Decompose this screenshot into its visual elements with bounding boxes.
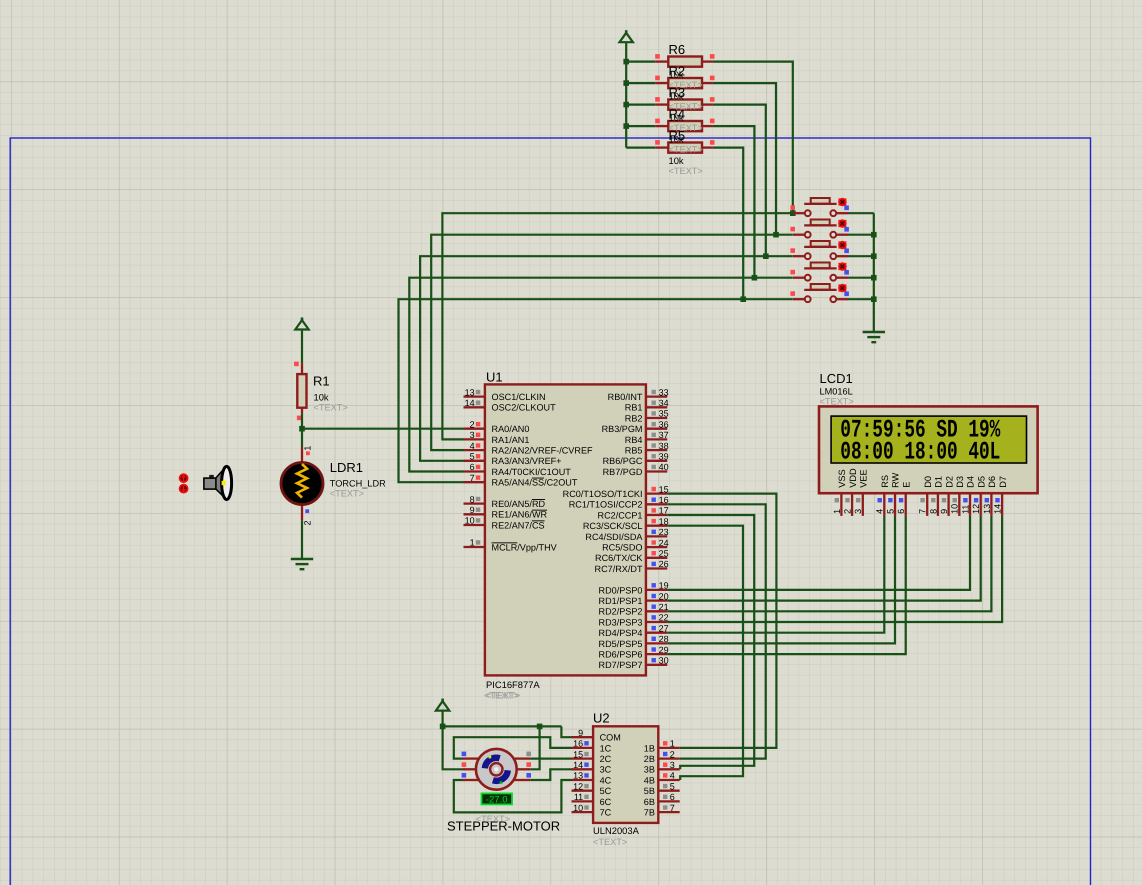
U1 pin 33 (RB0/INT): [646, 390, 667, 397]
wire U1 RD4 to LCD RS: [667, 516, 884, 633]
svg-text:RA4/T0CKI/C1OUT: RA4/T0CKI/C1OUT: [492, 467, 572, 477]
torch light source icon: [204, 466, 232, 499]
wire R6 right lead to button 1: [713, 62, 793, 214]
svg-text:D1: D1: [934, 476, 944, 488]
svg-text:11: 11: [960, 505, 970, 514]
wire U2 4C to motor coil D: [454, 780, 572, 812]
node ground rail node (junction): [871, 275, 877, 281]
svg-text:D3: D3: [955, 476, 965, 488]
svg-text:8: 8: [470, 494, 475, 504]
handle LDR1 pin2: [305, 509, 309, 513]
U1 pin 35 (RB2): [646, 411, 667, 418]
svg-text:VDD: VDD: [848, 468, 858, 488]
svg-text:RD3/PSP3: RD3/PSP3: [599, 617, 643, 627]
svg-text:RC1/T1OSI/CCP2: RC1/T1OSI/CCP2: [569, 500, 643, 510]
node LDR divider node (junction): [299, 426, 305, 432]
power symbol VCC (stepper): [436, 699, 449, 711]
wire U1 RC1 to U2 2B: [667, 504, 765, 758]
handle R6 pin1: [655, 54, 660, 59]
wire LDR divider node to U1 RA0: [302, 428, 464, 430]
svg-text:5: 5: [670, 781, 675, 791]
svg-text:<TEXT>: <TEXT>: [314, 403, 348, 413]
wire R6 left lead: [626, 60, 655, 62]
svg-text:D4: D4: [966, 476, 976, 488]
svg-text:RD7/PSP7: RD7/PSP7: [599, 660, 643, 670]
resistor R1 10k: [297, 363, 306, 413]
wire U1 RD2 to LCD D6: [667, 516, 991, 611]
LCD1 pin 6 (E): [899, 493, 906, 516]
node ground rail node (junction): [871, 253, 877, 259]
LDR LDR1 TORCH_LDR: [281, 447, 323, 520]
U1 pin 17 (RC2/CCP1): [646, 508, 667, 515]
wire R3 right lead to button 3: [713, 105, 766, 257]
svg-text:10: 10: [950, 504, 960, 514]
svg-text:RE1/AN6/WR: RE1/AN6/WR: [492, 510, 548, 520]
svg-text:16: 16: [659, 495, 669, 505]
LCD1 pin 3 (VEE): [856, 493, 863, 516]
wire U1 RD1 to LCD D5: [667, 516, 980, 601]
svg-text:RA2/AN2/VREF-/CVREF: RA2/AN2/VREF-/CVREF: [492, 446, 594, 456]
LCD1 pin 12 (D5): [974, 493, 981, 516]
svg-text:14: 14: [573, 760, 583, 770]
U1 pin 28 (RD5/PSP5): [646, 637, 667, 644]
ground LDR ground: [291, 559, 313, 569]
svg-text:22: 22: [659, 613, 669, 623]
wire R2 right lead to button 2: [713, 83, 776, 235]
svg-text:5: 5: [470, 452, 475, 462]
svg-text:19: 19: [659, 581, 669, 591]
svg-text:RC2/CCP1: RC2/CCP1: [598, 510, 643, 520]
LCD1 pin 7 (D0): [920, 493, 927, 516]
U1 pin 1 (MCLR/Vpp/THV): [464, 540, 485, 547]
svg-text:13: 13: [573, 771, 583, 781]
svg-text:RC7/RX/DT: RC7/RX/DT: [595, 564, 643, 574]
svg-text:<TEXT>: <TEXT>: [484, 690, 518, 700]
wire button ground rail: [873, 213, 875, 332]
node button 4 left node (junction): [752, 275, 758, 281]
node power rail mid node (junction): [537, 724, 543, 730]
U1 pin 21 (RD2/PSP2): [646, 605, 667, 612]
handle button 1 blue: [844, 206, 849, 211]
node button 5 left node (junction): [740, 296, 746, 302]
svg-text:RE0/AN5/RD: RE0/AN5/RD: [492, 499, 546, 509]
svg-text:D2: D2: [944, 476, 954, 488]
node ground rail node (junction): [871, 232, 877, 238]
svg-text:4B: 4B: [644, 775, 655, 785]
svg-text:RC4/SDI/SDA: RC4/SDI/SDA: [585, 532, 643, 542]
U2 pin 5 (5B): [658, 784, 679, 791]
wire button 2 right to ground rail: [848, 234, 874, 236]
svg-text:OSC1/CLKIN: OSC1/CLKIN: [492, 392, 546, 402]
svg-text:RD0/PSP0: RD0/PSP0: [599, 585, 643, 595]
svg-text:<TEXT>: <TEXT>: [820, 397, 854, 407]
svg-text:6B: 6B: [644, 797, 655, 807]
U2 pin 14 (3C): [572, 763, 594, 770]
svg-text:4: 4: [470, 441, 475, 451]
button 3 actuator: [838, 241, 846, 248]
svg-text:4C: 4C: [600, 775, 612, 785]
svg-text:4: 4: [875, 509, 885, 514]
handle motor pin B: [526, 752, 531, 757]
svg-text:13: 13: [982, 504, 992, 514]
svg-text:VEE: VEE: [859, 469, 869, 487]
svg-text:10k: 10k: [314, 392, 329, 403]
handle LDR1 pin1: [306, 451, 310, 455]
U1 pin 37 (RB4): [646, 433, 667, 440]
node ground rail node (junction): [871, 296, 877, 302]
resistor R3 10k: [655, 100, 713, 110]
U1 pin 4 (RA2/AN2/VREF-/CVREF): [464, 443, 485, 450]
sheet border: [10, 138, 1090, 885]
LCD1 pin 10 (D3): [953, 493, 960, 516]
U1 pin 22 (RD3/PSP3): [646, 615, 667, 622]
LCD display area: [831, 416, 1026, 463]
handle button 5 blue: [844, 292, 849, 297]
svg-text:9: 9: [470, 505, 475, 515]
svg-text:24: 24: [659, 538, 669, 548]
resistor R2 10k: [655, 78, 713, 88]
handle R1 pin1: [294, 362, 299, 367]
wire power to motor left common: [443, 726, 463, 769]
svg-text:STEPPER-MOTOR: STEPPER-MOTOR: [447, 819, 560, 834]
svg-text:30: 30: [659, 656, 669, 666]
handle R2 pin1: [655, 76, 660, 81]
push button 1: [793, 198, 848, 216]
wire U1 RD0 to LCD D4: [667, 516, 970, 590]
svg-text:-27.0: -27.0: [486, 795, 508, 806]
svg-text:1C: 1C: [600, 743, 612, 753]
handle button 5: [790, 291, 795, 296]
svg-text:6: 6: [670, 792, 675, 802]
svg-text:U2: U2: [593, 711, 610, 726]
svg-text:7B: 7B: [644, 808, 655, 818]
wire button 1 right to ground rail: [848, 212, 874, 214]
handle button 2: [790, 227, 795, 232]
svg-text:18: 18: [659, 516, 669, 526]
wire button 4 to PIC RA4: [409, 278, 793, 472]
push button 4: [793, 263, 848, 281]
svg-text:RD1/PSP1: RD1/PSP1: [599, 596, 643, 606]
stepper speed readout -27.0: [482, 793, 513, 805]
U1 pin 15 (RC0/T1OSO/T1CKI): [646, 487, 667, 494]
U1 pin 30 (RD7/PSP7): [646, 658, 667, 665]
svg-text:RB6/PGC: RB6/PGC: [603, 456, 643, 466]
svg-text:R6: R6: [669, 42, 686, 57]
U2 pin 13 (4C): [572, 773, 594, 780]
wire U2 1C to motor coil A: [454, 737, 572, 758]
svg-text:RW: RW: [891, 472, 901, 487]
push button 3: [793, 241, 848, 259]
wire U1 RC0 to U2 1B: [667, 494, 776, 748]
svg-text:3: 3: [470, 430, 475, 440]
button 2 actuator: [838, 220, 846, 227]
U1 pin 5 (RA3/AN3/VREF+): [464, 454, 485, 461]
svg-text:RC0/T1OSO/T1CKI: RC0/T1OSO/T1CKI: [563, 489, 643, 499]
svg-text:5C: 5C: [600, 786, 612, 796]
node button 3 left node (junction): [763, 253, 769, 259]
handle button 3 blue: [844, 249, 849, 254]
wire U1 RD5 to LCD RW: [667, 516, 895, 644]
svg-text:36: 36: [659, 419, 669, 429]
handle button 2 blue: [844, 227, 849, 232]
button 4 actuator: [838, 263, 846, 270]
svg-text:10: 10: [465, 516, 475, 526]
wire U1 RD6 to LCD E: [667, 516, 905, 654]
U1 pin 13 (OSC1/CLKIN): [464, 390, 485, 397]
resistor R4 10k: [655, 121, 713, 131]
U1 pin 25 (RC6/TX/CK): [646, 551, 667, 558]
svg-text:MCLR/Vpp/THV: MCLR/Vpp/THV: [492, 542, 558, 552]
svg-text:RC6/TX/CK: RC6/TX/CK: [595, 553, 643, 563]
wire button 3 right to ground rail: [848, 255, 874, 257]
handle R5 pin2: [710, 140, 715, 145]
node power rail / R3 (junction): [623, 102, 629, 108]
svg-text:2: 2: [303, 520, 313, 525]
svg-text:RB2: RB2: [625, 413, 643, 423]
wire button 5 to PIC RA5: [399, 299, 793, 482]
U1 pin 29 (RD6/PSP6): [646, 647, 667, 654]
svg-text:OSC2/CLKOUT: OSC2/CLKOUT: [492, 403, 557, 413]
U1 pin 34 (RB1): [646, 401, 667, 408]
svg-text:3: 3: [670, 760, 675, 770]
node button 1 left node (junction): [790, 210, 796, 216]
svg-text:<TEXT>: <TEXT>: [330, 489, 364, 499]
U1 pin 8 (RE0/AN5/RD): [464, 497, 485, 504]
U2 pin 12 (5C): [572, 784, 594, 791]
button 1 actuator: [838, 198, 846, 205]
handle motor pin D: [462, 773, 467, 778]
U1 pin 38 (RB5): [646, 443, 667, 450]
wire power to motor right common: [530, 726, 540, 769]
U1 pin 2 (RA0/AN0): [464, 422, 485, 429]
svg-text:29: 29: [659, 645, 669, 655]
svg-text:2C: 2C: [600, 754, 612, 764]
wire VCC stem: [442, 710, 444, 727]
wire button 3 to PIC RA3: [420, 256, 793, 461]
svg-text:7: 7: [670, 803, 675, 813]
svg-text:20: 20: [659, 591, 669, 601]
wire R5 right lead to button 5: [713, 148, 743, 300]
LCD LCD1 LM016L body: [819, 406, 1038, 493]
svg-text:COM: COM: [600, 733, 621, 743]
wire stepper power rail horizontal: [443, 725, 562, 727]
power symbol VCC (resistor network): [620, 30, 633, 42]
svg-text:RB5: RB5: [625, 446, 643, 456]
svg-text:16: 16: [573, 739, 583, 749]
svg-text:6: 6: [896, 509, 906, 514]
svg-text:7C: 7C: [600, 808, 612, 818]
wire U2 2C to motor coil B: [530, 757, 571, 759]
U1 pin 18 (RC3/SCK/SCL): [646, 519, 667, 526]
U2 pin 4 (4B): [658, 773, 679, 780]
svg-text:12: 12: [971, 504, 981, 514]
wire LDR1 to ground: [301, 520, 303, 558]
handle motor pin C: [526, 773, 531, 778]
svg-text:RD6/PSP6: RD6/PSP6: [599, 650, 643, 660]
U1 pin 19 (RD0/PSP0): [646, 583, 667, 590]
U1 pin 36 (RB3/PGM): [646, 422, 667, 429]
svg-text:37: 37: [659, 430, 669, 440]
LCD1 pin 11 (D4): [963, 493, 970, 516]
U2 pin 7 (7B): [658, 805, 679, 812]
svg-text:RS: RS: [880, 475, 890, 488]
U1 pin 7 (RA5/AN4/SS/C2OUT): [464, 475, 485, 482]
U2 pin 16 (1C): [572, 741, 594, 748]
svg-text:R4: R4: [669, 107, 686, 122]
svg-text:U1: U1: [486, 370, 503, 385]
svg-text:5B: 5B: [644, 786, 655, 796]
node power rail corner node (junction): [440, 724, 446, 730]
svg-text:28: 28: [659, 634, 669, 644]
svg-text:2: 2: [843, 509, 853, 514]
svg-text:1B: 1B: [644, 743, 655, 753]
svg-text:RA3/AN3/VREF+: RA3/AN3/VREF+: [492, 456, 562, 466]
ground buttons ground: [863, 332, 885, 342]
U2 pin 2 (2B): [658, 752, 679, 759]
U2 pin 11 (6C): [572, 795, 594, 802]
svg-text:6: 6: [470, 462, 475, 472]
wire R4 right lead to button 4: [713, 126, 755, 278]
svg-text:TORCH_LDR: TORCH_LDR: [330, 479, 386, 489]
svg-text:RA1/AN1: RA1/AN1: [492, 435, 530, 445]
svg-text:3: 3: [853, 509, 863, 514]
LCD1 pin 13 (D6): [985, 493, 992, 516]
svg-text:34: 34: [659, 398, 669, 408]
handle motor pin A: [462, 752, 467, 757]
svg-text:RA5/AN4/SS/C2OUT: RA5/AN4/SS/C2OUT: [492, 478, 578, 488]
U2 pin 1 (1B): [658, 741, 679, 748]
wire R5 left lead: [626, 147, 655, 149]
svg-text:R5: R5: [669, 128, 686, 143]
LCD1 pin 9 (D2): [942, 493, 949, 516]
svg-text:R3: R3: [669, 85, 686, 100]
U1 pin 6 (RA4/T0CKI/C1OUT): [464, 465, 485, 472]
svg-text:38: 38: [659, 441, 669, 451]
svg-text:<TEXT>: <TEXT>: [669, 145, 703, 155]
svg-text:9: 9: [939, 509, 949, 514]
svg-text:14: 14: [993, 504, 1003, 514]
handle R2 pin2: [710, 76, 715, 81]
svg-text:E: E: [901, 482, 911, 488]
torch brightness up button: [180, 474, 188, 482]
wire R1 to divider node: [301, 413, 303, 428]
U1 pin 3 (RA1/AN1): [464, 433, 485, 440]
svg-text:1: 1: [670, 739, 675, 749]
handle R4 pin1: [655, 119, 660, 124]
svg-text:3C: 3C: [600, 765, 612, 775]
handle R6 pin2: [710, 54, 715, 59]
wire power to U2 COM: [561, 726, 571, 737]
svg-text:10k: 10k: [669, 155, 684, 166]
svg-text:2: 2: [670, 749, 675, 759]
svg-text:1: 1: [832, 509, 842, 514]
svg-text:1: 1: [303, 446, 313, 451]
U2 pin 6 (6B): [658, 795, 679, 802]
wire VCC to R1: [301, 329, 303, 364]
svg-text:D6: D6: [987, 476, 997, 488]
wire button 5 right to ground rail: [848, 298, 874, 300]
svg-text:2: 2: [470, 419, 475, 429]
svg-text:R2: R2: [669, 64, 686, 79]
svg-text:15: 15: [573, 749, 583, 759]
svg-text:RD5/PSP5: RD5/PSP5: [599, 639, 643, 649]
svg-text:10: 10: [573, 803, 583, 813]
handle button 4 blue: [844, 270, 849, 275]
handle R4 pin2: [710, 119, 715, 124]
power symbol VCC (LDR divider): [295, 318, 308, 330]
resistor R5 10k: [655, 143, 713, 153]
svg-text:D0: D0: [923, 476, 933, 488]
wire U1 RC2 to U2 3B: [667, 515, 754, 769]
svg-text:12: 12: [573, 781, 583, 791]
svg-text:VSS: VSS: [837, 469, 847, 487]
svg-text:8: 8: [928, 509, 938, 514]
U1 pin 40 (RB7/PGD): [646, 465, 667, 472]
svg-text:RB1: RB1: [625, 403, 643, 413]
svg-text:RB4: RB4: [625, 435, 643, 445]
LCD1 pin 8 (D1): [931, 493, 938, 516]
handle button 4: [790, 270, 795, 275]
U2 pin 3 (3B): [658, 763, 679, 770]
svg-text:<TEXT>: <TEXT>: [593, 837, 627, 847]
svg-text:RD2/PSP2: RD2/PSP2: [599, 607, 643, 617]
svg-text:RE2/AN7/CS: RE2/AN7/CS: [492, 520, 545, 530]
handle R5 pin1: [655, 140, 660, 145]
LCD1 pin 2 (VDD): [845, 493, 852, 516]
svg-text:RB3/PGM: RB3/PGM: [602, 424, 643, 434]
svg-text:13: 13: [465, 387, 475, 397]
U1 pin 24 (RC5/SDO): [646, 540, 667, 547]
svg-text:2B: 2B: [644, 754, 655, 764]
svg-text:LM016L: LM016L: [820, 387, 853, 397]
U2 pin 9 (COM): [572, 736, 594, 738]
U1 pin 39 (RB6/PGC): [646, 454, 667, 461]
svg-text:RC5/SDO: RC5/SDO: [602, 543, 642, 553]
svg-text:ULN2003A: ULN2003A: [593, 825, 640, 836]
wire R4 left lead: [626, 125, 655, 127]
svg-text:25: 25: [659, 549, 669, 559]
svg-text:08:00 18:00 40L: 08:00 18:00 40L: [840, 438, 1000, 466]
svg-text:33: 33: [659, 387, 669, 397]
node power rail / R2 (junction): [623, 80, 629, 86]
U1 pin 14 (OSC2/CLKOUT): [464, 401, 485, 408]
handle R3 pin1: [655, 97, 660, 102]
node button 2 left node (junction): [773, 232, 779, 238]
wire R2 left lead: [626, 82, 655, 84]
LCD1 pin 14 (D7): [995, 493, 1002, 516]
LCD1 pin 1 (VSS): [835, 493, 842, 516]
svg-text:23: 23: [659, 527, 669, 537]
svg-text:6C: 6C: [600, 797, 612, 807]
wire U1 RC3 to U2 4B: [667, 526, 743, 780]
U2 pin 15 (2C): [572, 752, 594, 759]
wire power rail down from VCC arrow: [625, 42, 627, 148]
svg-text:PIC16F877A: PIC16F877A: [486, 679, 540, 690]
svg-text:9: 9: [578, 728, 583, 738]
U2 pin 10 (7C): [572, 805, 594, 812]
handle R3 pin2: [710, 97, 715, 102]
svg-text:11: 11: [574, 792, 583, 802]
U1 pin 16 (RC1/T1OSI/CCP2): [646, 498, 667, 505]
handle motor pin COM1: [462, 762, 467, 767]
svg-text:RA0/AN0: RA0/AN0: [492, 424, 530, 434]
torch brightness down button: [180, 485, 188, 493]
svg-text:D7: D7: [998, 476, 1008, 488]
svg-text:15: 15: [659, 484, 669, 494]
svg-text:26: 26: [659, 559, 669, 569]
svg-text:1: 1: [470, 538, 475, 548]
push button 5: [793, 284, 848, 302]
